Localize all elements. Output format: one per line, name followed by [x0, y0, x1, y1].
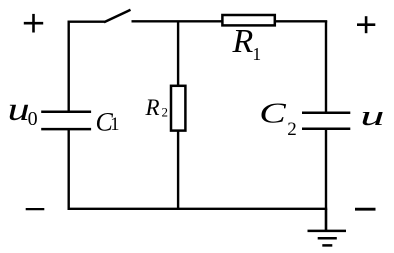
capacitor C2 top plate [302, 112, 350, 115]
svg-text:0: 0 [28, 108, 38, 130]
wire: top-left horizontal (plus corner to switch hinge) [68, 21, 105, 23]
svg-text:1: 1 [252, 44, 261, 64]
wire: right vertical lower (capacitor C2 to bottom rail) [325, 129, 327, 208]
wire: bottom rail [68, 208, 328, 210]
minus sign left [26, 208, 45, 210]
svg-text:u: u [360, 99, 384, 132]
switch S blade [104, 10, 131, 22]
minus sign right [355, 208, 376, 211]
resistor R2 body [171, 86, 185, 131]
svg-text:R: R [145, 95, 160, 120]
ground bar 2 [318, 237, 337, 240]
wire: middle vertical upper (top rail to resistor R2) [177, 21, 179, 86]
resistor R1 body [222, 15, 274, 25]
wire: switch contact to resistor R1 [132, 20, 223, 22]
svg-text:2: 2 [287, 119, 297, 140]
wire: left vertical lower (capacitor C1 to bottom rail) [67, 130, 69, 210]
wire: left vertical upper (plus rail down to capacitor C1) [67, 21, 69, 112]
wire: resistor R1 to top-right corner [275, 20, 327, 22]
capacitor C1 bottom plate [41, 128, 91, 131]
wire: right vertical upper (top rail to capacitor C2) [325, 21, 327, 113]
svg-text:1: 1 [110, 115, 119, 135]
plus sign left [24, 14, 43, 33]
wire: middle vertical lower (resistor R2 to bottom rail) [177, 131, 179, 209]
plus sign right [357, 16, 375, 33]
svg-text:2: 2 [162, 105, 169, 120]
ground bar 3 [322, 244, 332, 247]
capacitor C1 top plate [41, 111, 91, 114]
svg-text:C: C [259, 98, 287, 129]
svg-text:R: R [232, 23, 254, 60]
capacitor C2 bottom plate [302, 128, 350, 131]
ground stem [325, 209, 328, 231]
ground bar 1 [308, 230, 347, 233]
svg-text:u: u [8, 91, 30, 127]
